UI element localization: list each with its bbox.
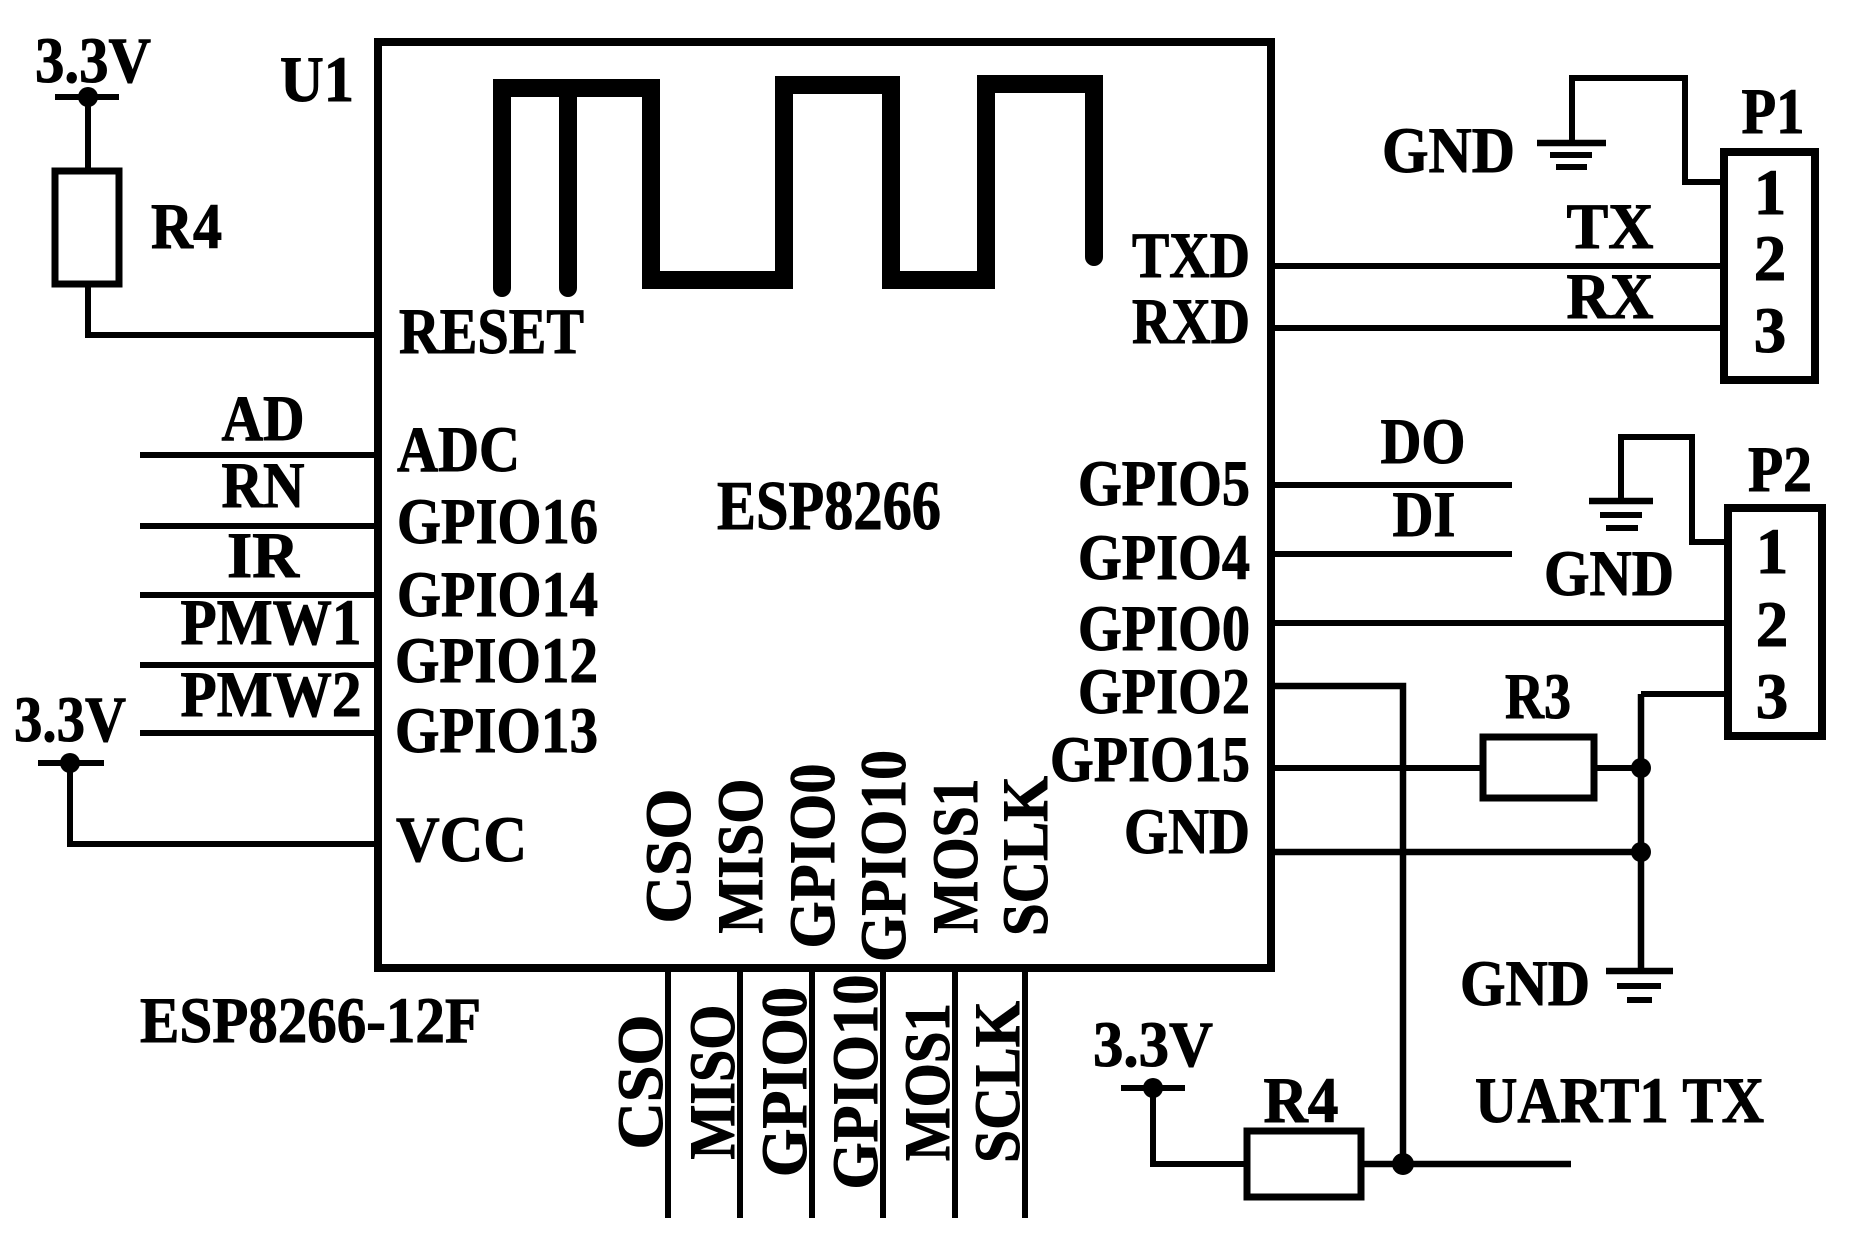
svg-text:R3: R3 <box>1505 661 1571 733</box>
svg-text:AD: AD <box>222 383 305 455</box>
svg-text:U1: U1 <box>280 44 354 116</box>
svg-text:R4: R4 <box>1264 1065 1339 1137</box>
svg-text:ESP8266: ESP8266 <box>717 468 941 545</box>
svg-text:RXD: RXD <box>1132 286 1250 358</box>
svg-text:ESP8266-12F: ESP8266-12F <box>140 985 481 1057</box>
svg-text:GND: GND <box>1382 115 1515 187</box>
svg-text:GPIO2: GPIO2 <box>1078 656 1250 728</box>
svg-text:GPIO0: GPIO0 <box>1078 593 1250 665</box>
svg-text:GPIO15: GPIO15 <box>1050 724 1250 796</box>
svg-text:2: 2 <box>1754 223 1787 295</box>
svg-text:GPIO14: GPIO14 <box>397 559 598 631</box>
svg-text:3: 3 <box>1754 295 1787 367</box>
svg-text:RN: RN <box>222 450 305 522</box>
svg-text:ADC: ADC <box>397 414 520 486</box>
svg-text:3.3V: 3.3V <box>1093 1009 1213 1081</box>
svg-text:VCC: VCC <box>396 804 527 876</box>
svg-text:MISO: MISO <box>705 779 777 934</box>
svg-text:GND: GND <box>1460 948 1590 1020</box>
svg-text:1: 1 <box>1756 516 1789 588</box>
svg-text:DO: DO <box>1381 406 1466 478</box>
svg-text:RESET: RESET <box>399 296 584 368</box>
svg-text:UART1 TX: UART1 TX <box>1475 1065 1764 1137</box>
svg-text:P1: P1 <box>1742 76 1805 148</box>
svg-text:CSO: CSO <box>633 789 705 924</box>
svg-text:GPIO5: GPIO5 <box>1078 448 1250 520</box>
svg-text:GPIO16: GPIO16 <box>397 486 598 558</box>
svg-text:P2: P2 <box>1748 434 1812 506</box>
svg-text:GPIO0: GPIO0 <box>777 764 849 949</box>
svg-text:3.3V: 3.3V <box>35 25 151 97</box>
svg-text:GPIO13: GPIO13 <box>395 695 598 767</box>
svg-text:GPIO10: GPIO10 <box>820 975 892 1190</box>
svg-text:PMW2: PMW2 <box>181 659 362 731</box>
svg-text:3.3V: 3.3V <box>14 684 126 756</box>
svg-text:TXD: TXD <box>1132 220 1250 292</box>
svg-text:MOS1: MOS1 <box>920 779 992 934</box>
svg-text:GPIO12: GPIO12 <box>395 625 598 697</box>
svg-text:2: 2 <box>1756 589 1789 661</box>
svg-text:1: 1 <box>1754 157 1787 229</box>
svg-text:GPIO0: GPIO0 <box>749 987 821 1177</box>
svg-text:GND: GND <box>1124 796 1250 868</box>
svg-text:SCLK: SCLK <box>990 776 1062 936</box>
svg-text:GND: GND <box>1544 538 1674 610</box>
svg-text:DI: DI <box>1393 479 1456 551</box>
svg-text:MOS1: MOS1 <box>892 1003 964 1161</box>
svg-text:MISO: MISO <box>677 1005 749 1160</box>
svg-text:GPIO4: GPIO4 <box>1078 522 1250 594</box>
svg-text:R4: R4 <box>151 191 222 263</box>
svg-text:3: 3 <box>1756 661 1789 733</box>
svg-text:GPIO10: GPIO10 <box>848 750 920 962</box>
svg-text:TX: TX <box>1567 191 1654 263</box>
svg-text:PMW1: PMW1 <box>181 587 362 659</box>
svg-text:CSO: CSO <box>605 1015 677 1150</box>
svg-text:SCLK: SCLK <box>962 1001 1034 1163</box>
svg-text:IR: IR <box>227 520 300 592</box>
svg-text:RX: RX <box>1567 261 1654 333</box>
